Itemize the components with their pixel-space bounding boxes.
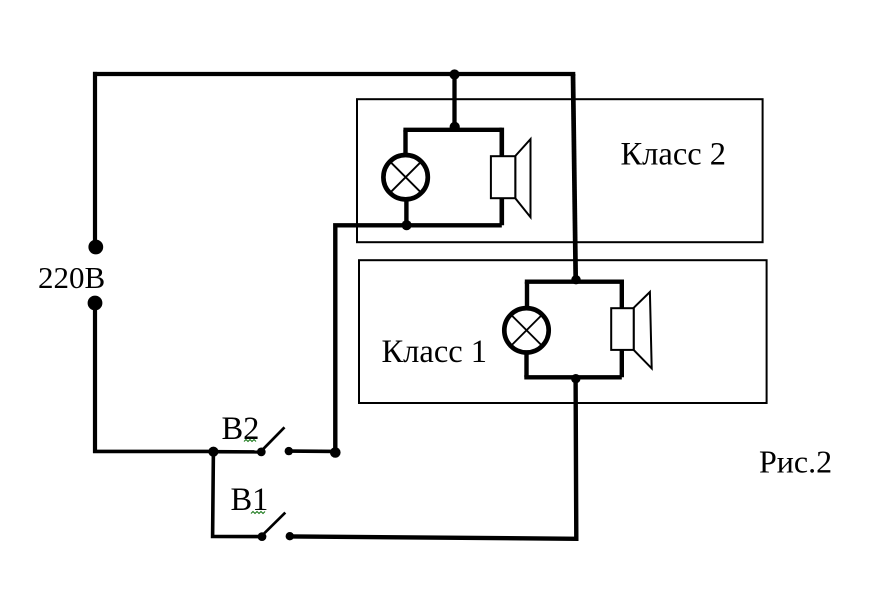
svg-text:В2: В2 [222, 411, 260, 447]
svg-text:220В: 220В [38, 260, 105, 295]
svg-text:Класс 1: Класс 1 [382, 334, 488, 370]
svg-text:Рис.2: Рис.2 [759, 444, 832, 480]
svg-text:Класс 2: Класс 2 [621, 137, 727, 173]
